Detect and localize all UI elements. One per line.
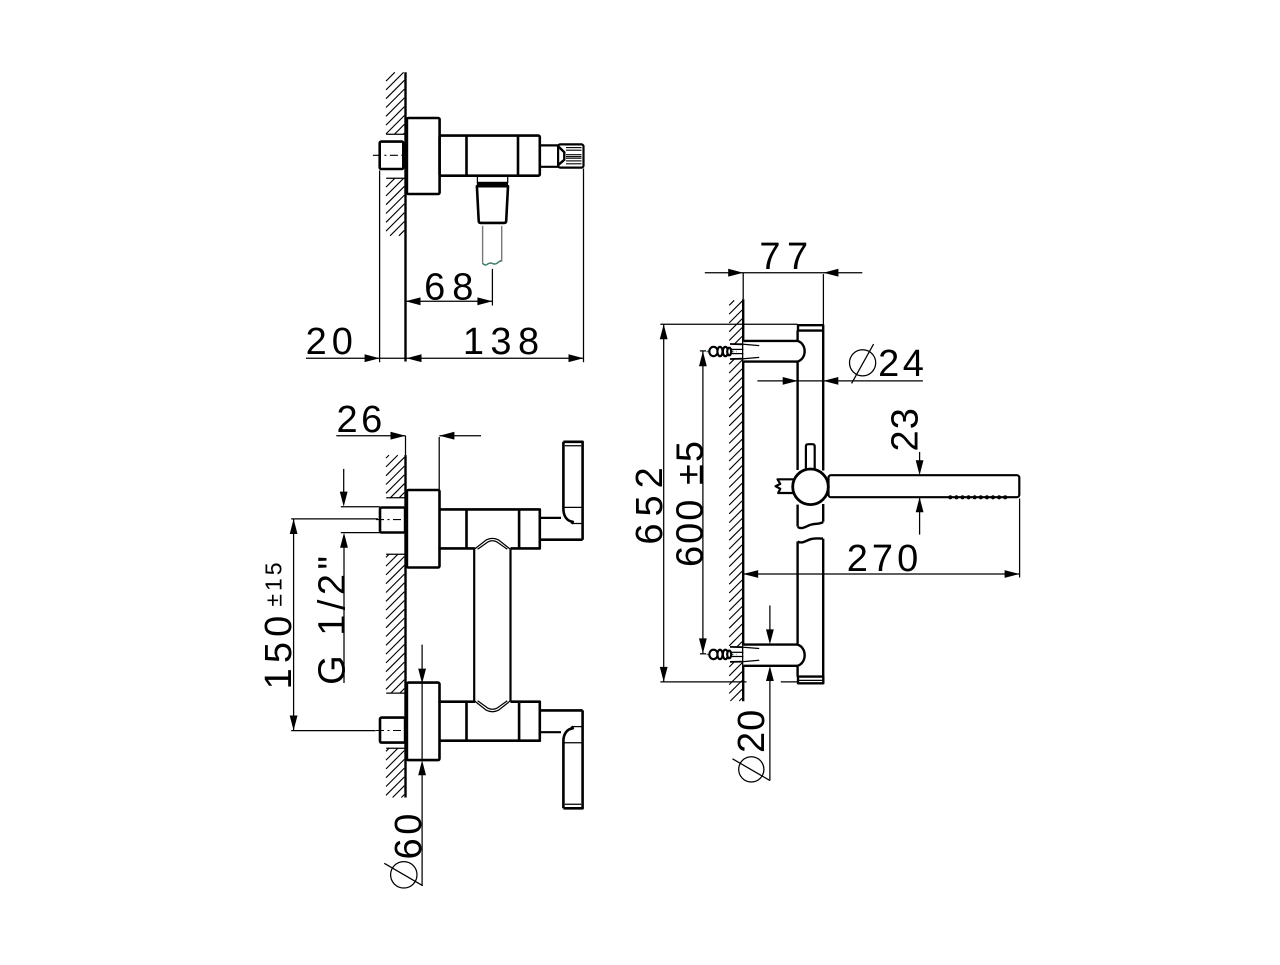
- wall hatching (top view): [386, 72, 395, 81]
- svg-text:77: 77: [759, 236, 814, 278]
- wall flange (top view): [407, 118, 440, 194]
- lower wall bracket arm: [743, 645, 804, 666]
- svg-text:68: 68: [424, 266, 480, 308]
- wall hatching (side view): [729, 300, 734, 305]
- dimension 77 line: [705, 272, 863, 274]
- dimension 26 line: [336, 435, 481, 437]
- svg-text:600 ±5: 600 ±5: [670, 439, 712, 567]
- dimension 652 bottom arrow: [660, 667, 668, 682]
- dimension 68 line: [406, 300, 493, 302]
- dimension 270 right arrow: [1005, 570, 1020, 578]
- dimension 138 right arrow: [569, 354, 584, 362]
- upper mounting screw: [707, 344, 760, 359]
- label D60 diameter symbol: [384, 862, 422, 888]
- thread callout upper arrow: [340, 492, 348, 507]
- dimension D60 upper arrow line: [421, 645, 423, 669]
- dimension 77 right arrow: [823, 269, 838, 277]
- handle end cap (top view): [558, 144, 583, 167]
- dimension D20 upper arrow: [766, 629, 774, 644]
- dimension 77 extension line: [822, 274, 824, 325]
- rail bottom end cap: [798, 677, 823, 684]
- rail right edge: [822, 331, 824, 677]
- dimension 270 line: [743, 573, 1019, 575]
- dimension 23 lower arrow: [916, 497, 924, 512]
- dimension D60 lower line: [421, 775, 423, 886]
- wall hole boundary lines (front view): [386, 498, 405, 749]
- svg-text:20: 20: [306, 321, 358, 363]
- shower holder clamp: [793, 469, 829, 505]
- wall hatching (front view): [386, 455, 389, 458]
- dimension 600 top tick: [700, 350, 706, 352]
- svg-text:60: 60: [388, 810, 430, 859]
- rail upper break line: [798, 522, 824, 528]
- thread callout upper arrow line: [343, 469, 345, 492]
- svg-text:20: 20: [731, 709, 773, 753]
- dimension 68 right arrow: [477, 297, 492, 305]
- dimension 652 line: [663, 324, 665, 682]
- dimension 20 arrow: [365, 354, 380, 362]
- dimension 150 bottom arrow: [290, 716, 298, 731]
- label D20 diameter symbol: [733, 757, 771, 782]
- outlet tube break line (top view): [482, 261, 501, 265]
- dimension 652 extension lines: [660, 324, 797, 682]
- dimension 20-138 line: [306, 357, 584, 359]
- dimension 600 bottom arrow: [699, 638, 707, 653]
- nut centerline (top view): [373, 154, 408, 156]
- lower mounting screw: [707, 647, 760, 662]
- dimension 23 upper line: [919, 452, 921, 461]
- svg-text:26: 26: [336, 399, 385, 441]
- dimension D20 lower line: [769, 681, 771, 781]
- upper valve assembly (front view): [376, 442, 583, 568]
- rail top end cap: [798, 325, 823, 330]
- dimension 77 left arrow: [728, 269, 743, 277]
- thread callout extension lines: [341, 507, 380, 533]
- dimension 150 line: [293, 519, 295, 731]
- outlet tube (top view): [483, 226, 502, 263]
- rail left edge: [796, 331, 798, 677]
- hand shower spray nozzles: [948, 495, 1007, 499]
- dimension 138 left arrow: [407, 354, 422, 362]
- holder locking knob: [806, 444, 815, 470]
- extension line handle right: [583, 169, 585, 363]
- dimension D24 line: [757, 380, 923, 382]
- spout collar (top view): [477, 176, 507, 182]
- lower valve assembly (front view, mirrored): [376, 683, 583, 809]
- dimension 150 extension lines: [291, 519, 378, 731]
- dimension 23 upper arrow: [916, 460, 924, 475]
- spout cone (top view): [477, 186, 508, 223]
- svg-text:±15: ±15: [261, 559, 287, 606]
- svg-text:23: 23: [885, 407, 927, 451]
- dimension D60 line through flange: [421, 684, 423, 761]
- thread callout leader line: [343, 548, 345, 684]
- wall line (side view): [742, 273, 744, 702]
- svg-text:24: 24: [878, 343, 927, 385]
- dimension D60 upper arrow: [418, 669, 426, 684]
- svg-text:270: 270: [847, 538, 922, 580]
- extension line nut left face: [379, 171, 381, 363]
- dimension 23 lower line: [919, 497, 921, 534]
- hand shower head stub: [776, 479, 794, 493]
- dimension D20 lower arrow: [766, 666, 774, 681]
- wall line (front view): [405, 436, 407, 798]
- connecting tube (front view): [474, 550, 510, 702]
- dimension 26 left arrow: [391, 432, 406, 440]
- dimension 600 line: [702, 351, 704, 653]
- dimension D20 upper line: [769, 606, 771, 630]
- rail lower break line: [798, 538, 824, 542]
- label D24 diameter symbol: [850, 344, 876, 383]
- thread callout lower arrow: [340, 533, 348, 548]
- svg-text:138: 138: [463, 321, 546, 363]
- svg-text:G 1/2": G 1/2": [312, 551, 354, 684]
- dimension 600 bottom tick: [700, 653, 706, 655]
- wall hole boundary lines (top view): [386, 134, 405, 178]
- svg-text:150: 150: [258, 611, 300, 690]
- hand shower handle: [829, 475, 1020, 497]
- dimension D60 lower arrow: [418, 760, 426, 775]
- dimension D24 right arrow: [823, 377, 838, 385]
- spout collar band (top view): [477, 182, 508, 186]
- dimension 26 right arrow: [439, 432, 454, 440]
- inlet nut (top view): [380, 142, 404, 169]
- valve body (top view): [440, 136, 540, 176]
- dimension 68 extension line: [491, 269, 493, 306]
- dimension D24 left arrow: [783, 377, 798, 385]
- wall line (top view): [404, 72, 406, 361]
- dimension 652 top arrow: [660, 324, 668, 339]
- dimension 270 extension line: [1019, 499, 1021, 578]
- handle stem (top view): [540, 145, 560, 166]
- dimension 150 top arrow: [290, 519, 298, 534]
- upper wall bracket arm: [743, 341, 804, 362]
- dimension 26 extension line: [438, 437, 440, 490]
- svg-text:652: 652: [629, 460, 671, 544]
- dimension 270 left arrow: [743, 570, 758, 578]
- dimension 68 left arrow: [406, 297, 421, 305]
- dimension 600 top arrow: [699, 351, 707, 366]
